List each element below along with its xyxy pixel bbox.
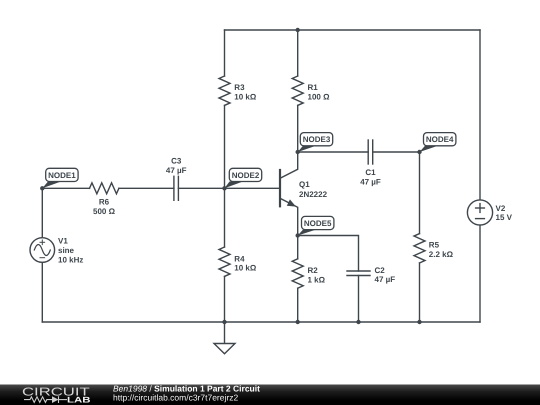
svg-text:C3: C3 — [171, 157, 182, 166]
wire R1 branch top — [297, 30, 299, 76]
svg-text:NODE3: NODE3 — [303, 135, 331, 144]
label R4 value — [234, 254, 257, 272]
node NODE1 — [42, 168, 78, 188]
svg-text:1 kΩ: 1 kΩ — [308, 276, 326, 285]
junction node A (NODE1) — [40, 186, 44, 190]
wire left rail bottom segment — [41, 262, 43, 322]
junction node D (NODE4) — [417, 150, 421, 154]
svg-text:2N2222: 2N2222 — [299, 190, 328, 199]
svg-text:10 kΩ: 10 kΩ — [234, 264, 257, 273]
wire input row: NODE1 to R6 — [42, 187, 89, 189]
wire V2 branch top — [479, 30, 481, 200]
footer bar — [0, 385, 540, 405]
label V1 value — [58, 237, 83, 265]
svg-text:NODE1: NODE1 — [48, 171, 76, 180]
wire bottom rail — [42, 321, 480, 323]
node NODE5 — [298, 216, 334, 235]
node NODE3 — [298, 133, 333, 152]
svg-text:LAB: LAB — [67, 396, 91, 405]
capacitor C3 — [174, 176, 179, 200]
wire R2 to bottom rail — [297, 288, 299, 322]
wire R1 to NODE3 — [297, 105, 299, 152]
resistor R5 — [414, 234, 425, 263]
svg-text:R5: R5 — [429, 240, 440, 249]
junction node E (NODE5) — [296, 233, 300, 237]
label R5 value — [429, 240, 454, 258]
svg-text:15 V: 15 V — [496, 213, 513, 222]
svg-text:NODE5: NODE5 — [304, 219, 332, 228]
svg-text:C1: C1 — [365, 168, 376, 177]
voltage source V2 — [467, 200, 492, 225]
voltage source V1 — [30, 238, 55, 263]
capacitor C2 — [347, 271, 370, 276]
wire NODE4 to R5 — [419, 152, 421, 234]
label V2 value — [496, 204, 513, 222]
label R2 value — [308, 266, 326, 284]
footer title text — [113, 384, 260, 403]
wire NODE5 row — [298, 236, 359, 272]
label C1 value — [360, 168, 381, 187]
wire left rail top segment — [41, 188, 43, 237]
wire R4 to bottom rail — [224, 276, 226, 322]
svg-text:47 µF: 47 µF — [375, 275, 396, 284]
wire NODE2 to R4 — [224, 188, 226, 247]
junction node B (NODE2) — [222, 186, 226, 190]
label R1 value — [308, 83, 331, 101]
svg-text:V1: V1 — [58, 237, 68, 246]
node NODE4 — [420, 133, 456, 152]
resistor R2 — [292, 259, 303, 288]
svg-text:2.2 kΩ: 2.2 kΩ — [429, 250, 454, 259]
junction top rail / R1 branch — [296, 28, 300, 32]
wire top rail — [225, 29, 481, 31]
label R3 value — [234, 83, 257, 101]
ground — [214, 322, 235, 354]
wire R3 to NODE2 — [224, 105, 226, 188]
capacitor C1 — [368, 140, 373, 164]
label C2 value — [375, 266, 396, 284]
resistor R4 — [219, 247, 230, 276]
junction bottom rail / ground — [222, 320, 226, 324]
wire NODE5 to R2 — [297, 236, 299, 259]
svg-text:Q1: Q1 — [299, 180, 310, 189]
junction node C (NODE3) — [296, 150, 300, 154]
label C3 value — [166, 157, 187, 176]
wire R6 to C3 — [119, 187, 174, 189]
svg-text:R4: R4 — [234, 254, 245, 263]
resistor R6 — [90, 183, 119, 194]
svg-text:R6: R6 — [99, 198, 110, 207]
svg-text:R1: R1 — [308, 83, 319, 92]
svg-text:10 kΩ: 10 kΩ — [234, 93, 257, 102]
svg-text:R3: R3 — [234, 83, 245, 92]
wire C3 to NODE2 to base — [178, 187, 280, 189]
transistor Q1 — [280, 152, 298, 236]
resistor R3 — [219, 76, 230, 105]
junction bottom rail / R2 — [296, 320, 300, 324]
svg-text:NODE4: NODE4 — [426, 135, 454, 144]
junction bottom rail / C2 — [356, 320, 360, 324]
resistor R1 — [292, 76, 303, 105]
svg-text:http://circuitlab.com/c3r7t7er: http://circuitlab.com/c3r7t7erejrz2 — [113, 393, 238, 403]
junction bottom rail / R5 — [417, 320, 421, 324]
wire R3 branch top — [224, 30, 226, 76]
wire NODE3 to C1 — [298, 151, 369, 153]
svg-text:47 µF: 47 µF — [360, 178, 381, 187]
svg-text:NODE2: NODE2 — [232, 171, 260, 180]
node NODE2 — [225, 168, 262, 188]
svg-text:100 Ω: 100 Ω — [308, 93, 331, 102]
svg-text:V2: V2 — [496, 204, 506, 213]
label Q1 value — [299, 180, 328, 199]
svg-text:C2: C2 — [375, 266, 386, 275]
svg-text:R2: R2 — [308, 266, 319, 275]
wire R5 to bottom rail — [419, 263, 421, 322]
svg-text:sine: sine — [58, 246, 75, 255]
wire C2 to bottom rail — [358, 276, 360, 323]
wire V2 to bottom rail — [479, 225, 481, 322]
svg-text:10 kHz: 10 kHz — [58, 256, 83, 265]
svg-text:500 Ω: 500 Ω — [93, 207, 116, 216]
label R6 value — [93, 198, 116, 216]
footer logo CIRCUIT LAB — [22, 387, 91, 405]
wire C1 to NODE4 — [373, 151, 420, 153]
svg-text:47 µF: 47 µF — [166, 166, 187, 175]
